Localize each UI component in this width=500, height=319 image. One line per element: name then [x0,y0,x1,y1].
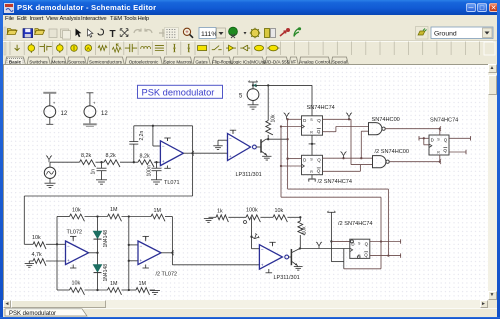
svg-text:10k: 10k [270,114,276,123]
svg-text:LP311/301: LP311/301 [236,172,262,178]
svg-text:TL071: TL071 [164,180,180,186]
svg-text:S: S [310,118,313,122]
svg-text:10k: 10k [72,281,81,287]
svg-text:Q: Q [317,158,321,163]
svg-text:SN74HC74: SN74HC74 [307,105,335,111]
svg-text:SN74HC74: SN74HC74 [430,118,458,124]
svg-text:Q: Q [317,169,321,174]
svg-text:Q: Q [443,148,447,153]
svg-text:D: D [351,242,354,247]
svg-text:D: D [303,118,306,123]
svg-text:1N4148: 1N4148 [103,230,109,248]
svg-text:10k: 10k [301,226,307,235]
svg-text:S: S [310,158,313,162]
svg-text:−: − [67,244,70,249]
svg-text:1k: 1k [217,208,223,214]
svg-text:4,7k: 4,7k [32,252,42,258]
svg-text:−: − [229,136,232,141]
svg-text:1M: 1M [139,281,147,287]
svg-text:/2 SN74HC74: /2 SN74HC74 [318,179,353,185]
svg-text:10k: 10k [275,208,284,214]
svg-text:1M: 1M [154,208,162,214]
svg-text:2,2n: 2,2n [139,131,145,141]
svg-text:12: 12 [61,111,68,117]
svg-text:SN74HC00: SN74HC00 [372,117,400,123]
svg-text:R: R [310,170,313,174]
svg-text:D: D [303,158,306,163]
svg-text:Q: Q [365,242,369,247]
svg-text:−: − [140,244,143,249]
svg-text:+: + [67,258,70,263]
svg-text:+: + [53,101,56,106]
svg-text:Q: Q [317,129,321,134]
svg-text:Q: Q [364,252,368,257]
svg-text:+: + [229,154,232,159]
svg-text:R: R [310,131,313,135]
svg-text:10k: 10k [72,208,81,214]
svg-text:10k: 10k [32,235,41,241]
svg-text:1M: 1M [110,207,118,213]
svg-text:TL072: TL072 [67,229,83,235]
svg-text:Q: Q [317,118,321,123]
svg-text:100n: 100n [147,165,153,176]
svg-text:+: + [261,263,264,268]
svg-text:S: S [437,137,440,141]
svg-text:/2 SN74HC74: /2 SN74HC74 [338,221,373,227]
svg-text:−: − [261,247,264,252]
svg-text:1n: 1n [91,169,97,175]
svg-text:5: 5 [239,94,243,100]
svg-text:/2 SN74HC00: /2 SN74HC00 [375,149,410,155]
svg-text:Q: Q [444,137,448,142]
svg-text:8,2k: 8,2k [106,153,116,159]
svg-text:PSK demodulator: PSK demodulator [142,88,215,98]
svg-text:R: R [437,150,440,154]
svg-text:12: 12 [101,111,108,117]
svg-text:100k: 100k [246,207,258,213]
svg-text:+: + [162,159,165,164]
svg-text:1N4148: 1N4148 [103,264,109,282]
svg-text:S: S [358,242,361,246]
svg-text:1M: 1M [110,281,118,287]
svg-text:+: + [140,258,143,263]
svg-text:/2 TL072: /2 TL072 [156,271,178,277]
svg-text:LP311/301: LP311/301 [274,275,300,281]
svg-text:−: − [162,143,165,148]
svg-text:8,2k: 8,2k [140,154,150,160]
svg-text:D: D [431,137,434,142]
svg-text:+: + [93,101,96,106]
svg-text:8,2k: 8,2k [81,153,91,159]
